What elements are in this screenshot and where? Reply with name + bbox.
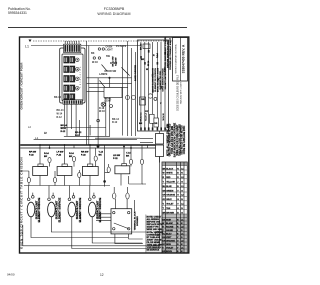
lamp circle 2 — [110, 105, 113, 108]
wire upper run — [34, 139, 137, 141]
svg-text:BLACK: BLACK — [166, 167, 174, 170]
harness lower rotated labels — [141, 112, 166, 122]
svg-text:R-12: R-12 — [57, 116, 63, 119]
svg-text:WHITE: WHITE — [166, 173, 173, 175]
part number sidebar notes — [165, 37, 172, 70]
svg-text:DE SERVICE: DE SERVICE — [147, 250, 160, 252]
legend table header band — [162, 162, 187, 166]
main bus line L1 (thick) — [20, 144, 155, 146]
svg-text:Y-14: Y-14 — [126, 152, 131, 155]
oven control EOC inner board — [62, 54, 83, 101]
wires into terminal block left — [96, 214, 111, 221]
svg-text:BORNIER: BORNIER — [137, 216, 139, 226]
svg-text:OR: OR — [141, 99, 145, 101]
svg-text:COUPER LE COURANT AVANT: COUPER LE COURANT AVANT — [169, 37, 172, 70]
EOC relay K4 — [64, 85, 79, 92]
hidden bake relay — [150, 114, 155, 123]
svg-text:BK-12: BK-12 — [75, 132, 82, 134]
heating element pair upper — [156, 134, 164, 145]
svg-text:L1: L1 — [35, 136, 39, 140]
svg-text:R-12 L2: R-12 L2 — [146, 112, 148, 120]
header separator rule — [8, 27, 187, 29]
wire drop to bus junction — [97, 136, 99, 146]
svg-text:BLUE: BLUE — [166, 186, 172, 188]
svg-text:ELEMENT SURFACE: ELEMENT SURFACE — [99, 197, 102, 222]
svg-text:BAKE CUISSON: BAKE CUISSON — [134, 65, 137, 81]
EOC relay K3 — [64, 76, 79, 83]
rotated wire labels mid — [113, 57, 138, 81]
legend table frame — [162, 162, 187, 253]
svg-text:318047409 REV. A: 318047409 REV. A — [182, 44, 186, 73]
legend table density shade lower — [162, 214, 187, 253]
svg-text:L1: L1 — [25, 45, 29, 49]
surface switch labels row — [29, 151, 131, 161]
wire run under harness — [95, 137, 140, 139]
part number block — [173, 38, 188, 82]
door switch S1 — [93, 57, 95, 59]
infinite switch SW4 — [105, 148, 130, 187]
svg-text:BR: BR — [139, 123, 143, 125]
svg-text:R-14: R-14 — [156, 52, 159, 58]
svg-text:P1 P2 P3: P1 P2 P3 — [116, 45, 127, 48]
wire mesh middle — [87, 78, 132, 92]
svg-text:ROUGE: ROUGE — [166, 226, 174, 228]
svg-text:FC330BNPB: FC330BNPB — [104, 7, 125, 11]
diagram outer border — [20, 37, 189, 253]
svg-text:1 2 3 4 5 6 7 8 9: 1 2 3 4 5 6 7 8 9 — [80, 66, 82, 88]
svg-text:BK-14: BK-14 — [61, 124, 68, 127]
convection fan M — [148, 94, 152, 98]
switch arm 3 — [100, 81, 106, 89]
wire run from LF element — [51, 217, 146, 232]
wire L2 return run — [23, 157, 160, 246]
svg-text:LF SW: LF SW — [57, 152, 65, 154]
node N (neutral) marker — [29, 40, 32, 43]
surface element LR label — [97, 197, 103, 222]
svg-text:12: 12 — [100, 273, 104, 277]
svg-text:04/00: 04/00 — [7, 273, 15, 277]
svg-text:BK-12 L1: BK-12 L1 — [141, 112, 143, 122]
svg-text:HI-LIMIT LIMITEUR: HI-LIMIT LIMITEUR — [165, 70, 167, 89]
svg-text:VERT: VERT — [166, 237, 172, 239]
wires to heating elements — [140, 138, 153, 142]
svg-text:GRIS: GRIS — [166, 244, 172, 246]
svg-text:W-14 N: W-14 N — [162, 113, 165, 121]
svg-text:BK: BK — [99, 155, 103, 157]
relay component box — [104, 88, 122, 98]
wire collector run — [20, 186, 110, 187]
heating element pair lower — [156, 145, 164, 157]
svg-text:W: W — [163, 173, 165, 175]
svg-text:BK-12 SW: BK-12 SW — [113, 57, 115, 67]
circled note mark — [156, 231, 160, 235]
junction dot — [97, 145, 100, 148]
fuse F3 oval — [130, 148, 132, 159]
EOC relay K2 — [64, 66, 79, 73]
surface element LF terminals — [48, 198, 51, 201]
fuse F1 oval — [48, 157, 51, 162]
surface element RR terminals — [68, 198, 71, 201]
wire run from LR element — [92, 217, 142, 243]
svg-text:R-14 INT: R-14 INT — [114, 57, 117, 66]
svg-text:J: J — [177, 230, 178, 232]
wire stubs to terminal block — [114, 187, 127, 209]
wire code labels under EOC — [61, 124, 68, 133]
surface element terminal stubs — [29, 186, 94, 199]
legend table rows — [162, 166, 187, 249]
oven lamp L — [101, 102, 105, 106]
svg-text:GY: GY — [145, 111, 149, 113]
svg-text:BK: BK — [126, 156, 130, 158]
svg-text:P-22: P-22 — [81, 155, 86, 157]
svg-text:CODE DE CABLAGE 105C: CODE DE CABLAGE 105C — [183, 125, 186, 154]
legend table columns — [166, 162, 185, 253]
junction dot mesh — [108, 77, 110, 79]
svg-text:W-18: W-18 — [92, 61, 98, 64]
svg-text:R-14: R-14 — [69, 152, 75, 155]
wire drops to EOC terminals — [65, 41, 79, 44]
surface element RF — [27, 202, 35, 217]
harness connector J2 — [143, 44, 150, 49]
svg-text:BK: BK — [91, 52, 95, 55]
svg-text:WIRE 105C MIN: WIRE 105C MIN — [147, 229, 163, 231]
svg-text:TABLEAU DES CODES: TABLEAU DES CODES — [180, 81, 183, 104]
probe jack — [154, 97, 157, 100]
svg-text:W-14: W-14 — [61, 127, 67, 130]
svg-text:TAN: TAN — [166, 207, 171, 210]
warm zone terminals — [113, 193, 116, 199]
wire through elements — [159, 131, 161, 163]
door switch S2 — [98, 57, 100, 59]
svg-text:LIGHT: LIGHT — [106, 49, 114, 52]
svg-text:R-14: R-14 — [44, 152, 50, 155]
oven control EOC outer case — [60, 48, 85, 103]
svg-text:W-14: W-14 — [147, 60, 150, 66]
svg-text:P-22: P-22 — [113, 158, 118, 160]
surface element LF — [48, 202, 56, 217]
wire L1 bus — [31, 45, 140, 47]
wires from terminal block bottom — [115, 234, 143, 244]
svg-text:BK-12: BK-12 — [141, 43, 143, 50]
wire label cluster upper middle — [91, 45, 127, 124]
EOC terminal strip — [64, 44, 81, 52]
svg-text:YELLOW: YELLOW — [166, 182, 175, 184]
switch bottom wires to collector — [40, 174, 121, 186]
EOC bottom pin row — [63, 100, 83, 104]
wire bus vertical drop A — [86, 41, 88, 145]
svg-text:RED: RED — [166, 177, 171, 179]
svg-text:BRUN: BRUN — [166, 251, 172, 253]
harness connector J1 — [140, 97, 146, 105]
harness bottom terminal feet — [140, 127, 166, 130]
svg-text:BLEU: BLEU — [166, 233, 172, 235]
svg-text:RR SW: RR SW — [81, 152, 89, 154]
wire run from RF element — [31, 217, 128, 238]
hidden broil relay — [154, 118, 159, 127]
surface element LR — [88, 202, 96, 217]
svg-text:WIRING DIAGRAM: WIRING DIAGRAM — [97, 12, 130, 16]
harness rotated label block — [152, 68, 168, 92]
svg-text:NOIR: NOIR — [166, 219, 172, 221]
svg-text:W: W — [162, 223, 164, 225]
svg-text:BK: BK — [69, 156, 73, 158]
svg-text:LR SW: LR SW — [113, 155, 121, 157]
svg-text:VIOLET: VIOLET — [166, 247, 174, 249]
svg-text:GREEN: GREEN — [166, 190, 174, 192]
svg-text:ELEMENT SURFACE: ELEMENT SURFACE — [58, 197, 61, 222]
svg-text:JAUNE: JAUNE — [166, 229, 173, 232]
svg-text:ELEMENT SURFACE: ELEMENT SURFACE — [79, 197, 82, 222]
surface element LR terminals — [89, 198, 92, 201]
bus junction dots — [39, 144, 132, 149]
svg-text:ORANGE: ORANGE — [166, 194, 175, 197]
wire drops below EOC — [79, 120, 90, 135]
svg-text:W-18: W-18 — [99, 110, 105, 113]
wire run from RR element — [72, 217, 160, 249]
selector switch arm 2 — [121, 67, 129, 75]
oven wiring harness box — [138, 40, 169, 131]
wire cross line — [61, 127, 107, 129]
svg-text:Y-14: Y-14 — [99, 151, 104, 154]
EOC relay K1 — [64, 57, 79, 64]
svg-text:OVEN CIRCUIT / CIRCUIT FOUR: OVEN CIRCUIT / CIRCUIT FOUR — [19, 62, 23, 110]
svg-text:VIOLET: VIOLET — [166, 204, 174, 206]
legend table text — [162, 167, 184, 253]
main bus line N — [20, 147, 155, 149]
wire run under EOC — [64, 135, 110, 137]
svg-text:CODE DES COULEURS DES FILS: CODE DES COULEURS DES FILS — [178, 74, 180, 111]
labels above bus — [44, 132, 82, 137]
svg-text:R-12: R-12 — [75, 135, 81, 137]
door latch switch pair — [126, 96, 130, 100]
infinite switch SW3 — [78, 148, 99, 178]
bus drop stubs — [40, 145, 148, 148]
wire harness labels — [139, 43, 167, 125]
svg-text:BLANC: BLANC — [166, 222, 174, 225]
svg-text:BROWN: BROWN — [166, 212, 174, 214]
surface element LF label — [56, 197, 62, 222]
notes text block bottom — [147, 217, 164, 252]
wire stub right of block — [133, 200, 135, 213]
fuse F4 oval — [141, 148, 143, 159]
svg-text:R-12: R-12 — [112, 121, 118, 124]
svg-text:OR: OR — [154, 123, 158, 125]
wire harness verticals — [141, 42, 165, 129]
svg-text:LAMPE: LAMPE — [99, 73, 108, 76]
notes block density shade — [146, 215, 162, 253]
svg-text:P-22: P-22 — [29, 155, 34, 157]
EOC relay K5 — [64, 94, 75, 100]
svg-text:GRAY: GRAY — [166, 198, 172, 201]
notes block divider — [145, 215, 147, 254]
surface element RF terminals — [27, 198, 30, 201]
svg-text:BK: BK — [141, 59, 145, 61]
wire neutral dashed bus — [33, 40, 172, 42]
wire bus vertical drop B — [88, 46, 90, 146]
terminal block TB — [111, 209, 132, 234]
surface element RR label — [76, 197, 82, 222]
fuse F2 oval — [72, 156, 75, 161]
svg-text:R-12: R-12 — [61, 131, 67, 133]
oven lamp terminals — [98, 48, 100, 50]
surface element RR — [68, 202, 76, 217]
svg-text:LIGHT: LIGHT — [104, 100, 112, 103]
surface element RF label — [35, 197, 41, 222]
EOC bottom pin wires — [65, 104, 76, 136]
svg-text:BK: BK — [44, 156, 48, 158]
fuse oval on drop — [97, 119, 100, 122]
svg-text:P-22: P-22 — [57, 155, 62, 157]
switch arm — [102, 65, 108, 72]
header model number — [97, 7, 130, 16]
harness terminal marks — [140, 50, 166, 93]
svg-text:WIRING DIAGRAM SCHEMA: WIRING DIAGRAM SCHEMA — [175, 44, 178, 73]
junction dot 2 — [103, 180, 106, 183]
svg-text:BK-14: BK-14 — [54, 96, 62, 99]
svg-text:5995344331: 5995344331 — [8, 11, 27, 15]
notes rotated block — [166, 122, 186, 157]
svg-text:ELEMENT SURFACE: ELEMENT SURFACE — [38, 197, 41, 222]
terminal block rotated label — [133, 211, 139, 230]
infinite switch SW2 — [53, 148, 74, 183]
svg-text:RF SW: RF SW — [29, 152, 37, 154]
wire EOC left labels — [54, 96, 64, 119]
header publication number — [8, 7, 31, 15]
infinite switch SW1 — [20, 148, 49, 183]
svg-text:J: J — [177, 182, 178, 184]
svg-text:ORANGE: ORANGE — [166, 239, 175, 242]
